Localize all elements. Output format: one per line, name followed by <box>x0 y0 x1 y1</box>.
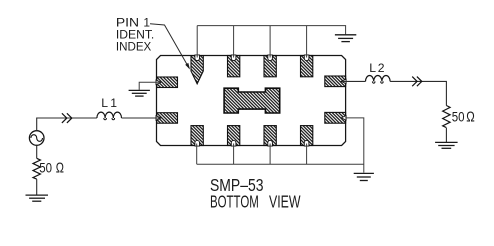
L1 coil under-loops <box>104 118 115 120</box>
pad pin bottom 4 <box>301 126 313 146</box>
svg-text:INDEX: INDEX <box>116 40 151 54</box>
notch upper-left side castellation <box>156 80 161 85</box>
wire bottom pad3 to bottom bus <box>269 144 271 165</box>
wire bottom pad4 to bottom bus <box>306 144 308 165</box>
notch pin1 castellation <box>195 55 200 61</box>
pad pin top 2 <box>228 56 240 77</box>
svg-text:L1: L1 <box>101 96 117 110</box>
resistor R1 50 ohm (input termination) <box>33 158 40 179</box>
pad pin bottom 3 <box>264 126 276 146</box>
svg-text:BOTTOM: BOTTOM <box>210 192 259 212</box>
wire source bottom to R1 <box>36 145 38 158</box>
pad upper-right side (RF output) <box>325 76 346 87</box>
pad pin1 (top, pointed index pad) <box>191 56 203 84</box>
leader line pin1 ident arrow <box>150 24 189 68</box>
chevrons output >> <box>412 77 422 87</box>
pad pin bottom 1 <box>191 126 203 146</box>
wire upper-left pad to ground <box>139 82 160 90</box>
pad lower-left side (RF input) <box>157 113 178 124</box>
wire top pad3 to top bus <box>269 26 271 58</box>
svg-text:Ω: Ω <box>466 110 475 126</box>
wire top pad4 to top bus <box>306 26 308 58</box>
wire R2 to ground <box>445 128 447 142</box>
wire L1 to lower-left pad <box>122 117 161 119</box>
wire top ground bus <box>197 26 345 35</box>
wire bottom ground bus <box>197 163 364 165</box>
notch bottom pad4 castellation <box>304 140 309 146</box>
inductor L1 coil <box>97 112 122 118</box>
chevrons input >> <box>62 113 72 123</box>
sine symbol inside source <box>31 135 43 142</box>
ground right (load) <box>435 142 458 148</box>
package outline U1 SMP-53 body <box>157 56 346 146</box>
svg-text:Ω: Ω <box>56 161 64 177</box>
pad upper-left side (grounded) <box>157 77 178 88</box>
ground upper-left <box>129 90 150 96</box>
wire bottom pad2 to bottom bus <box>233 144 235 165</box>
svg-text:L2: L2 <box>369 61 384 75</box>
ground bottom-right <box>354 173 374 180</box>
wire top pad2 to top bus <box>233 26 235 58</box>
notch bottom pad2 castellation <box>231 140 236 146</box>
wire top pad1 to top bus <box>196 26 198 58</box>
svg-text:50: 50 <box>452 110 465 125</box>
wire source top to L1 <box>37 118 97 131</box>
pad pin top 3 <box>264 56 276 77</box>
arrowhead of pin1 leader <box>185 63 190 70</box>
pad lower-right side (grounded) <box>325 112 346 123</box>
wire upper-right pad to L2 <box>342 80 366 82</box>
resistor R2 50 ohm (output termination) <box>443 106 450 128</box>
notch top pad3 castellation <box>268 55 273 61</box>
notch lower-right side castellation <box>341 116 346 121</box>
wire bottom pad1 to bottom bus <box>196 144 198 165</box>
pad pin top 4 <box>301 56 313 77</box>
notch lower-left side castellation <box>156 116 161 121</box>
notch bottom pad3 castellation <box>268 140 273 146</box>
L2 coil under-loops <box>372 81 383 83</box>
notch top pad2 castellation <box>231 55 236 61</box>
inductor L2 coil <box>366 75 391 81</box>
ground left (source) <box>26 195 49 201</box>
wire lower-right pad to ground drop <box>345 118 364 173</box>
svg-text:VIEW: VIEW <box>269 192 301 212</box>
wire R1 to ground <box>36 179 38 195</box>
notch upper-right side castellation <box>341 79 346 84</box>
notch top pad4 castellation <box>304 55 309 61</box>
ground top-right <box>335 35 356 42</box>
source V1 (AC generator circle) <box>29 131 44 146</box>
pad pin bottom 2 <box>228 126 240 146</box>
wire L2 to chevrons and down to R2 <box>390 81 446 105</box>
center paddle (I-beam shaped die pad) <box>224 88 280 113</box>
notch bottom pad1 castellation <box>195 140 200 146</box>
svg-text:50: 50 <box>39 161 52 176</box>
